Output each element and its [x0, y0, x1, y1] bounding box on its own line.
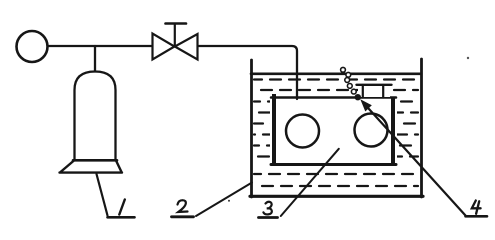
- speck on leader 2: [228, 200, 230, 202]
- pointer arrow 4 shaft: [364, 104, 466, 216]
- numeral 2: [178, 200, 188, 212]
- tank 2 left wall: [250, 60, 253, 197]
- gas trap cup white interior: [358, 86, 390, 97]
- numeral 4: [472, 201, 481, 214]
- water surface line: [251, 73, 421, 76]
- label 4 underline: [466, 215, 488, 218]
- gas trap cup right side: [382, 85, 384, 98]
- vessel hole right: [355, 114, 388, 147]
- leader line 2: [196, 183, 252, 217]
- gas cylinder 1 body: [75, 72, 116, 160]
- leader line 1: [97, 174, 108, 216]
- vessel 3 top edge: [271, 96, 396, 99]
- pressure gauge: [17, 31, 48, 62]
- stray speck top right: [467, 57, 469, 59]
- valve stem: [174, 25, 176, 47]
- valve body right triangle: [175, 34, 198, 60]
- gas trap cup top: [357, 84, 392, 86]
- gas trap cup left side: [362, 85, 364, 98]
- label 1 underline: [108, 216, 135, 219]
- numeral 3: [263, 202, 271, 215]
- vessel 3 bottom edge: [271, 163, 396, 166]
- water hatching bottom rows: [254, 174, 418, 186]
- vessel 3 white interior: [270, 96, 397, 167]
- vessel 3 left edge: [272, 94, 276, 166]
- pipe branch to cylinder: [94, 46, 96, 72]
- tank 2 right wall: [420, 59, 423, 197]
- valve handle bar: [166, 22, 187, 25]
- pointer arrow 4 head: [360, 99, 372, 111]
- label 2 underline: [172, 215, 194, 218]
- pipe valve to tank: [198, 46, 297, 99]
- pipe gauge to valve: [48, 45, 152, 47]
- tank 2 bottom: [250, 195, 423, 198]
- gas cylinder bottom line: [73, 159, 117, 162]
- numeral 1: [119, 200, 125, 215]
- water hatching top rows: [254, 80, 418, 91]
- gas cylinder base trapezoid: [60, 161, 123, 173]
- vessel hole left: [286, 115, 319, 148]
- leader line 3: [281, 149, 339, 216]
- label 3 underline: [259, 216, 278, 219]
- water hatching middle rows: [254, 102, 418, 157]
- vessel 3 right edge: [391, 97, 395, 167]
- bubbles rising: [341, 67, 361, 99]
- valve body left triangle: [153, 34, 175, 60]
